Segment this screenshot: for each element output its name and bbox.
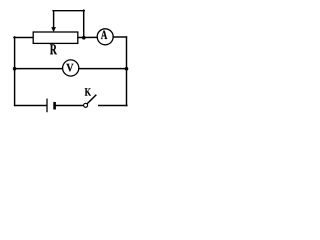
resistor R1 body	[33, 32, 78, 43]
switch K pivot circle	[84, 103, 88, 107]
label A ammeter	[101, 31, 107, 39]
junction node at resistor output	[82, 36, 86, 40]
junction node right rail voltmeter tap	[125, 67, 129, 71]
wire wiper loop right drop	[83, 10, 85, 37]
wire right rail vertical	[126, 37, 128, 106]
label R value	[50, 44, 57, 54]
wire battery to switch	[56, 105, 84, 107]
wire resistor to ammeter	[78, 36, 97, 38]
wire voltmeter to right rail	[79, 68, 127, 70]
wire ammeter to right corner	[113, 36, 126, 38]
wire switch to bottom right corner	[99, 105, 127, 107]
wire bottom left	[15, 105, 47, 107]
label K switch	[85, 88, 91, 95]
wire left rail to voltmeter	[15, 68, 63, 70]
wire top-left horizontal	[14, 37, 34, 39]
battery BT1 long plate	[46, 99, 48, 111]
label V voltmeter	[66, 64, 73, 72]
wiper arrowhead	[51, 27, 56, 32]
junction node left rail voltmeter tap	[13, 67, 17, 71]
battery BT1 short plate	[53, 102, 56, 110]
wire wiper stem	[53, 11, 55, 28]
ammeter U1 circle	[97, 29, 113, 45]
wire wiper loop top	[53, 10, 84, 12]
wire left rail vertical	[14, 37, 16, 106]
voltmeter U2 circle	[63, 60, 79, 76]
switch K blade	[88, 95, 96, 103]
